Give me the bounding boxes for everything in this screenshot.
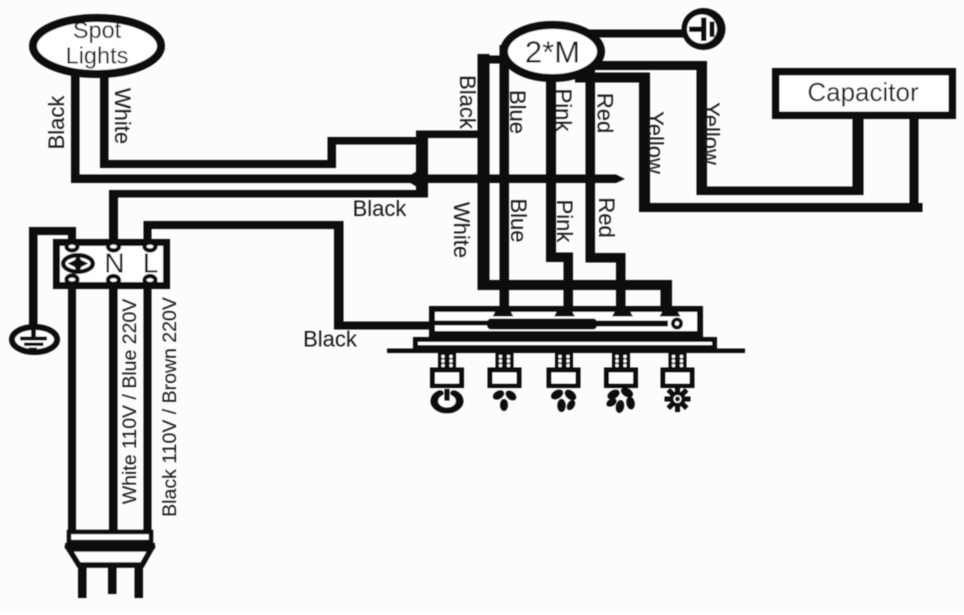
yellow wire 2 vertical — [697, 61, 708, 195]
plug prong left — [78, 566, 87, 598]
pink wire upper vertical — [546, 45, 556, 262]
slider entry line — [429, 321, 489, 326]
switch unit 4 (fan high) — [604, 353, 638, 388]
main vertical wire (black from motor / white to switches) — [478, 54, 490, 286]
yellow wire 1 horizontal to capacitor right lead — [639, 203, 923, 212]
svg-text:Pink: Pink — [552, 200, 577, 244]
plug body trapezoid — [69, 549, 151, 565]
node vertical link at x422 — [416, 131, 428, 198]
svg-text:Pink: Pink — [551, 89, 576, 133]
stub from main vertical to motor — [478, 56, 506, 64]
plug solid band — [65, 543, 155, 549]
capacitor box — [776, 72, 953, 116]
red wire upper vertical — [586, 45, 596, 263]
terminal foot 1 — [493, 307, 514, 317]
wire motor to earth terminal circle — [560, 30, 684, 38]
white bus drop into foot 4 — [661, 280, 673, 309]
switch box base line — [387, 349, 745, 354]
terminal foot 2 — [554, 307, 575, 317]
slider end ring — [671, 318, 683, 330]
capacitor right lead — [910, 112, 919, 212]
pink wire lower vertical to foot 2 — [564, 253, 574, 310]
mains cable: neutral conductor — [109, 283, 118, 533]
wire L horizontal into switch box — [334, 322, 431, 330]
red jog horizontal — [586, 253, 626, 263]
svg-text:Black: Black — [44, 95, 69, 150]
wire black from spot lights (vertical drop) — [71, 58, 80, 183]
pink jog horizontal — [546, 253, 573, 263]
yellow wire 1 vertical — [639, 73, 650, 212]
svg-text:White: White — [449, 202, 474, 258]
icon fan med — [549, 388, 578, 412]
switch unit 3 (fan med) — [547, 353, 581, 388]
switch unit 1 (power) — [430, 353, 464, 388]
svg-text:Capacitor: Capacitor — [807, 77, 919, 107]
plug top bar — [69, 532, 151, 542]
svg-text:L: L — [143, 248, 159, 279]
motor 2*M — [504, 25, 601, 78]
switch box lower housing — [416, 340, 715, 348]
icon power — [434, 389, 460, 411]
switch unit 2 (fan low) — [488, 353, 522, 388]
icon fan low — [491, 389, 518, 411]
svg-text:Spot: Spot — [73, 17, 122, 43]
earth wire vertical down to earth symbol — [29, 227, 38, 329]
yellow wire 1 stub from motor — [575, 73, 650, 83]
svg-text:Yellow: Yellow — [699, 102, 724, 165]
terminal foot 4 — [660, 307, 681, 317]
blue wire from motor to foot 1 — [500, 45, 510, 310]
wire white horizontal run — [100, 160, 336, 168]
terminal rings top row — [67, 243, 78, 251]
slider thin bar — [566, 321, 668, 327]
wire L horizontal run — [144, 221, 344, 229]
wire L mid vertical drop — [334, 221, 344, 330]
svg-text:Yellow: Yellow — [643, 111, 668, 174]
capacitor left lead — [853, 112, 864, 195]
plug prong middle — [108, 566, 117, 594]
slider thick bar — [487, 319, 597, 330]
svg-text:Red: Red — [594, 197, 619, 237]
white bus horizontal to foot 4 — [478, 280, 672, 290]
earth wire horizontal — [29, 227, 76, 235]
wire black long horizontal run — [71, 175, 616, 184]
mains cable: live conductor — [144, 283, 152, 533]
earth ground symbol — [12, 327, 57, 352]
svg-text:Black 110V / Brown 220V: Black 110V / Brown 220V — [159, 297, 181, 517]
svg-text:Black: Black — [353, 196, 408, 221]
svg-text:Red: Red — [593, 93, 618, 133]
yellow wire 2 horizontal to capacitor left lead — [697, 187, 864, 196]
wire black tapered right tip — [616, 175, 625, 184]
wire L to switch box: vertical above L — [144, 221, 152, 243]
wire white from spot lights (vertical drop) — [100, 58, 109, 168]
svg-text:Black: Black — [303, 327, 358, 352]
terminal block — [57, 243, 167, 286]
junction arrow on black wire at node — [404, 171, 417, 187]
motor earth terminal (circle with ground glyph) — [682, 8, 726, 50]
svg-text:Lights: Lights — [66, 43, 129, 69]
icon fan high — [605, 386, 636, 414]
wire white step up — [328, 137, 337, 168]
svg-text:Black: Black — [455, 75, 480, 130]
wire from N terminal vertical — [109, 190, 118, 245]
icon light (sun) — [665, 386, 691, 412]
wire white upper horizontal to node — [328, 137, 429, 145]
terminal rings bottom row — [67, 276, 78, 284]
yellow wire 2 stub from motor — [588, 61, 707, 70]
block earth symbol ellipse — [63, 255, 93, 272]
mains cable: earth conductor — [68, 283, 76, 533]
svg-text:White: White — [110, 88, 135, 144]
terminal foot 3 — [612, 307, 633, 317]
earth wire: vertical into block — [68, 227, 76, 243]
plug prong right — [135, 566, 144, 598]
wire from N terminal horizontal — [109, 190, 428, 198]
wire white jog horizontal to main vertical — [416, 131, 487, 139]
svg-text:Blue: Blue — [506, 198, 531, 242]
svg-text:White 110V / Blue 220V: White 110V / Blue 220V — [119, 299, 141, 505]
spot lights lamp — [33, 18, 161, 74]
svg-text:2*M: 2*M — [525, 35, 580, 70]
red wire lower vertical to foot 3 — [616, 253, 626, 310]
svg-text:N: N — [104, 248, 124, 279]
switch unit 5 (light) — [661, 353, 695, 388]
svg-text:Blue: Blue — [505, 90, 530, 134]
switch box upper housing — [432, 309, 700, 334]
